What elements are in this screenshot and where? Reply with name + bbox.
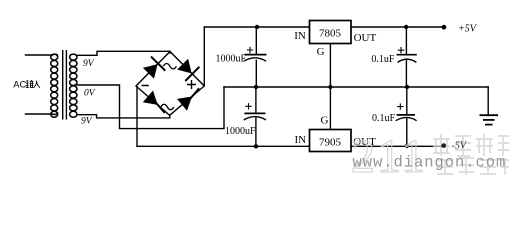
wire 9V top tap to bridge top: [77, 51, 170, 55]
wire top rail right: [351, 26, 444, 28]
junction C1 top rail: [255, 25, 259, 29]
svg-text:0V: 0V: [84, 89, 96, 99]
svg-text:1000uF: 1000uF: [216, 54, 247, 65]
wire bridge minus to bottom rail: [136, 87, 138, 147]
svg-text:+5V: +5V: [458, 24, 478, 35]
svg-text:IN: IN: [295, 134, 307, 146]
minus mark: [142, 85, 149, 87]
wire bottom rail right: [351, 145, 444, 147]
svg-text:www.diangon.com: www.diangon.com: [353, 154, 507, 172]
svg-text:7905: 7905: [319, 136, 342, 148]
wire C1 leads: [255, 27, 257, 54]
ac mark top: [163, 64, 176, 69]
svg-text:OUT: OUT: [354, 32, 377, 44]
junction C2 bottom rail: [254, 144, 258, 148]
capacitor C1 1000uF: [216, 47, 267, 65]
junction C4 bottom rail: [405, 144, 409, 148]
regulator U1 7805: [294, 21, 376, 59]
wire C2 leads: [255, 87, 257, 113]
diode D3 lower-left: [143, 91, 166, 114]
wire ground stem: [487, 87, 489, 114]
svg-text:G: G: [321, 115, 329, 127]
ground: [480, 115, 499, 124]
svg-text:9V: 9V: [83, 59, 95, 69]
svg-text:G: G: [317, 46, 325, 58]
svg-text:-5V: -5V: [452, 140, 468, 151]
capacitor C3 0.1uF: [371, 47, 416, 65]
wire primary bottom stub: [26, 113, 53, 115]
transformer T1: [51, 50, 77, 120]
bridge rectifier B1: [136, 52, 204, 116]
wire bridge plus to top rail: [203, 27, 205, 86]
svg-text:AC: AC: [13, 80, 26, 90]
wire 9V bottom tap to bridge bottom: [78, 115, 170, 118]
svg-text:0.1uF: 0.1uF: [371, 54, 395, 65]
diode D2 upper-right: [177, 59, 200, 82]
ac mark bottom: [161, 104, 174, 109]
diode D4 lower-right: [177, 88, 200, 111]
label AC input: [13, 80, 40, 90]
node -5V terminal: [441, 140, 468, 151]
wire primary top stub: [26, 54, 53, 56]
wire 0V tap to middle rail: [77, 85, 224, 129]
svg-text:1000uF: 1000uF: [225, 126, 256, 137]
junction G leads middle rail: [328, 85, 332, 89]
wire U2 ground lead: [329, 87, 331, 130]
wire bottom rail left: [137, 145, 310, 147]
wire C4 leads: [406, 87, 408, 114]
diode D1 upper-left: [143, 56, 166, 79]
plus mark: [187, 80, 196, 89]
capacitor C2 1000uF: [225, 103, 266, 137]
regulator U2 7905: [295, 115, 377, 152]
svg-text:0.1uF: 0.1uF: [372, 113, 396, 124]
wire U1 ground lead: [329, 44, 331, 88]
svg-text:7805: 7805: [319, 28, 342, 40]
junction C1-C2 middle rail: [254, 85, 258, 89]
svg-text:IN: IN: [294, 30, 306, 42]
capacitor C4 0.1uF: [372, 103, 417, 123]
junction C3 top rail: [404, 25, 408, 29]
wire top rail left: [204, 26, 309, 28]
watermark big glyphs: [351, 130, 509, 183]
wire middle rail: [224, 86, 488, 88]
node +5V terminal: [442, 24, 478, 35]
wire C3 leads: [405, 27, 407, 54]
svg-text:9V: 9V: [81, 117, 93, 127]
junction C3-C4 middle rail: [405, 85, 409, 89]
